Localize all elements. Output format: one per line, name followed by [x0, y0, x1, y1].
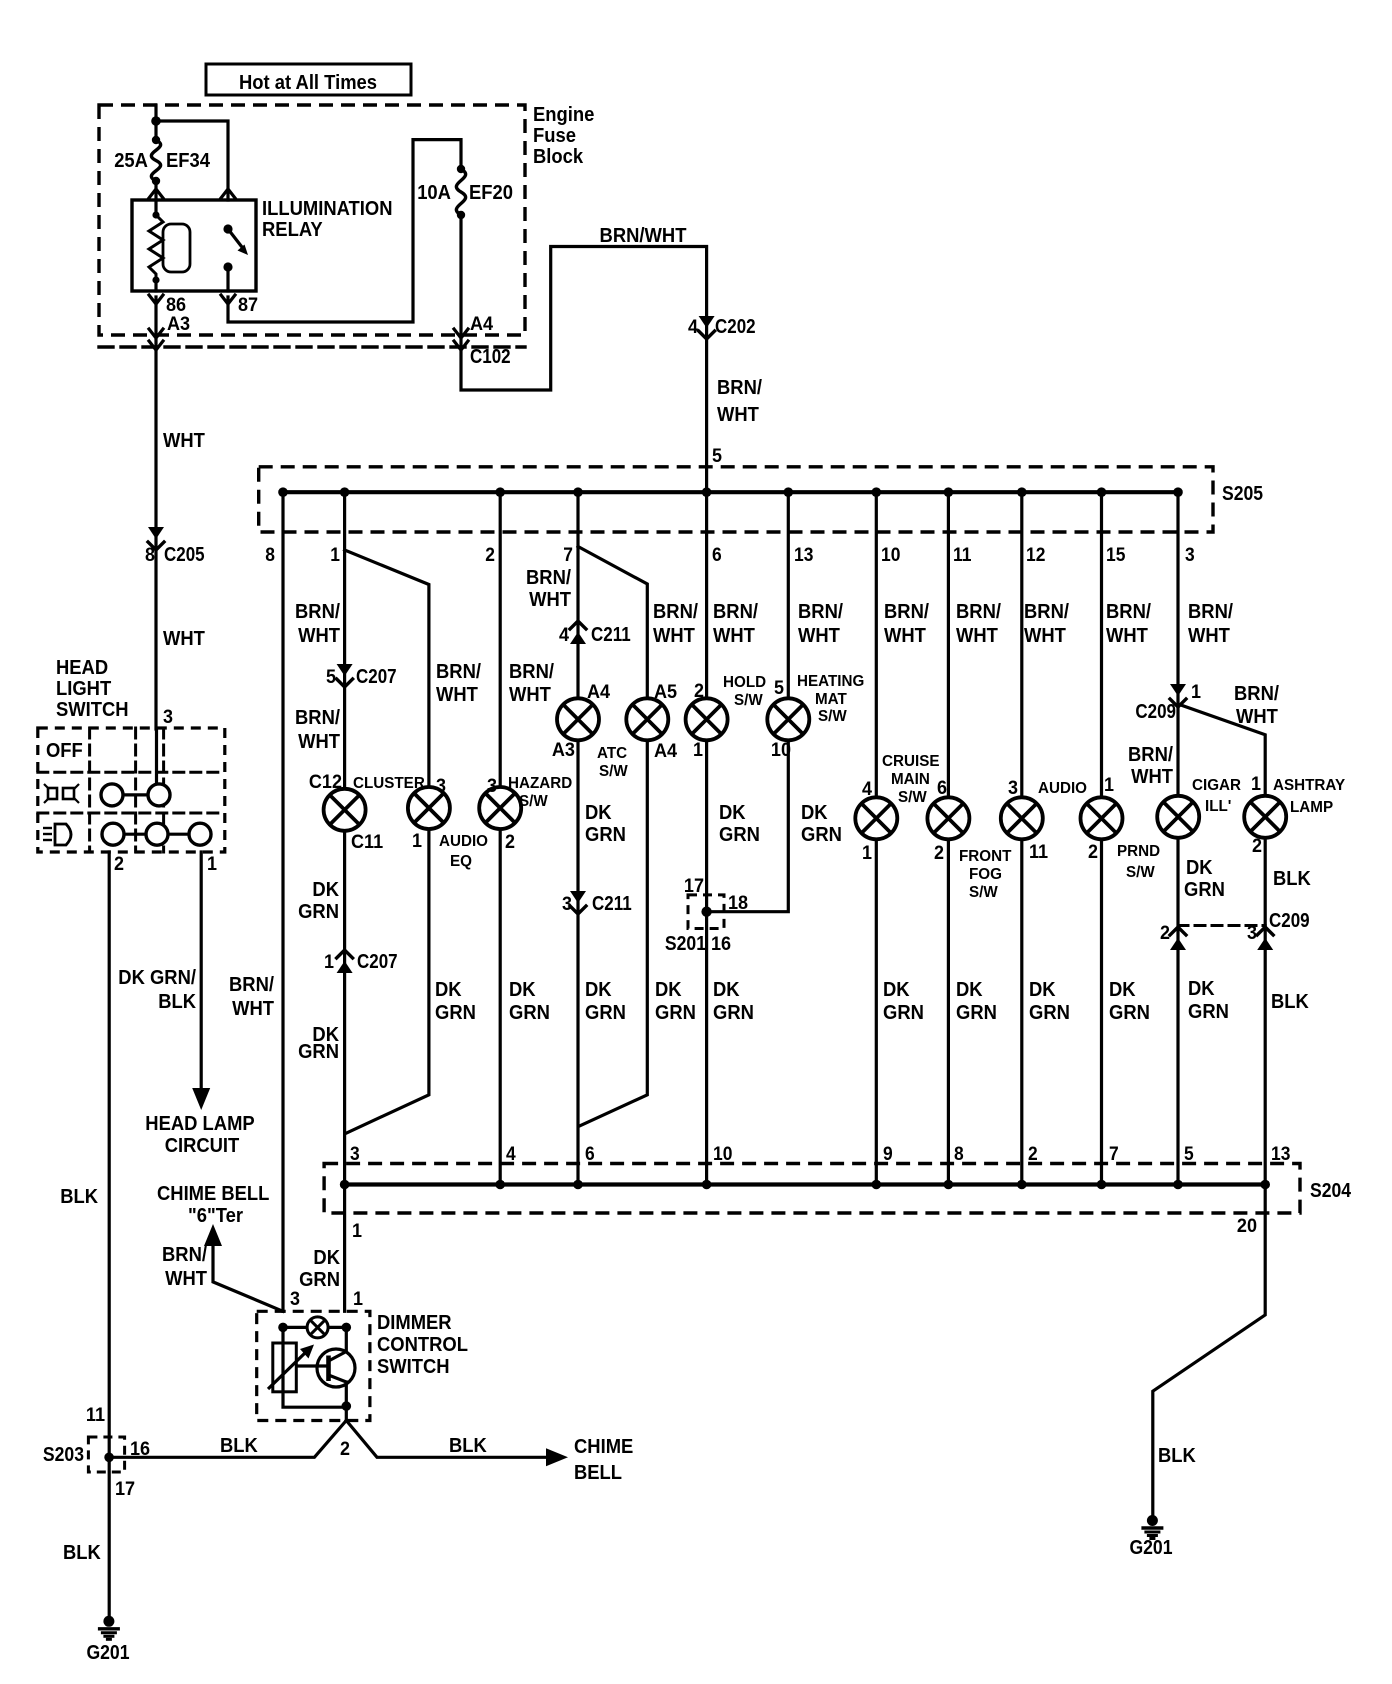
svg-text:G201: G201 — [1129, 1537, 1172, 1559]
svg-text:WHT: WHT — [1131, 766, 1173, 788]
wire dimmer pin2 BLK to chime bell — [346, 1421, 547, 1458]
svg-text:S205: S205 — [1222, 483, 1263, 505]
lamp PRND switch illumination — [1081, 797, 1123, 839]
wire branch C209 to ashtray lamp down to S204 pin13 — [1178, 704, 1265, 1185]
pin chevron 87 — [221, 295, 235, 304]
node S204 splice P — [1260, 1180, 1270, 1190]
pin arrow into relay left — [149, 189, 163, 198]
svg-text:CLUSTER: CLUSTER — [353, 775, 425, 792]
svg-text:BRN/: BRN/ — [295, 707, 340, 729]
node S204 splice F — [495, 1180, 505, 1190]
svg-text:A4: A4 — [587, 682, 611, 703]
lamp cigar lighter illumination — [1157, 796, 1199, 838]
svg-text:2: 2 — [934, 843, 944, 864]
dimmer control switch dashed box — [257, 1311, 370, 1420]
svg-text:G201: G201 — [86, 1642, 129, 1664]
node S204 splice O — [1173, 1180, 1183, 1190]
svg-text:WHT: WHT — [653, 625, 695, 647]
svg-text:1: 1 — [330, 545, 340, 566]
svg-text:WHT: WHT — [1188, 625, 1230, 647]
svg-text:1: 1 — [412, 831, 422, 852]
head light switch inner grid — [38, 728, 225, 852]
svg-text:BLK: BLK — [1273, 868, 1311, 890]
svg-text:CIGAR: CIGAR — [1192, 777, 1241, 794]
S201 splice dashed box — [688, 895, 724, 929]
fuse EF20 10A — [456, 165, 465, 219]
svg-text:BELL: BELL — [574, 1462, 622, 1484]
connector C205 arrow — [148, 527, 164, 550]
svg-text:GRN: GRN — [509, 1002, 550, 1024]
svg-text:BRN/: BRN/ — [436, 661, 481, 683]
connector C202 arrow — [699, 316, 715, 339]
svg-text:RELAY: RELAY — [262, 219, 323, 241]
svg-text:C211: C211 — [592, 893, 632, 915]
arrow to head lamp circuit — [192, 1088, 210, 1110]
lamp ATC switch illumination 2 — [626, 698, 668, 740]
svg-text:S/W: S/W — [599, 763, 629, 780]
node S204 splice D — [340, 1180, 350, 1190]
connector crossing A3 row2 — [149, 341, 163, 350]
svg-text:A4: A4 — [470, 314, 494, 335]
svg-text:1: 1 — [1191, 682, 1201, 703]
rheostat arrow — [268, 1345, 314, 1390]
svg-text:GRN: GRN — [298, 1041, 339, 1063]
svg-text:MAT: MAT — [815, 691, 847, 708]
svg-text:S204: S204 — [1310, 1180, 1352, 1202]
svg-text:3: 3 — [1008, 778, 1018, 799]
svg-text:C207: C207 — [357, 951, 398, 973]
svg-text:1: 1 — [207, 854, 217, 875]
svg-text:5: 5 — [326, 667, 336, 688]
wire S205 pin15 down through PRND switch lamp to S204 pin7 — [1100, 492, 1103, 1184]
pin chevron 86 — [149, 295, 163, 304]
svg-text:WHT: WHT — [232, 998, 274, 1020]
svg-text:1: 1 — [353, 1289, 363, 1310]
wire S205 pin2 down through hazard switch lamp to S204 pin4 — [499, 492, 502, 1184]
svg-text:DK: DK — [585, 979, 612, 1001]
svg-text:16: 16 — [130, 1439, 150, 1460]
node S205 splice G — [573, 487, 583, 497]
svg-text:Hot at All Times: Hot at All Times — [239, 72, 377, 94]
node S205 splice C — [278, 487, 288, 497]
svg-text:1: 1 — [1104, 775, 1114, 796]
svg-text:18: 18 — [728, 893, 748, 914]
wire S205 pin1 down to cluster lamp and S204 pin3 — [343, 492, 346, 1184]
node S205 splice O — [1173, 487, 1183, 497]
node S205 splice I — [702, 487, 712, 497]
svg-text:DK: DK — [313, 1247, 340, 1269]
connector C207 pin5 arrow — [337, 664, 353, 687]
svg-text:A4: A4 — [654, 741, 678, 762]
svg-text:DK: DK — [435, 979, 462, 1001]
svg-text:Engine: Engine — [533, 104, 594, 126]
relay coil — [149, 211, 190, 283]
lamp hold switch illumination — [686, 698, 728, 740]
svg-text:BLK: BLK — [158, 991, 196, 1013]
head lamp icon — [43, 824, 71, 845]
svg-text:2: 2 — [1028, 1144, 1038, 1165]
svg-text:S/W: S/W — [519, 793, 549, 810]
svg-text:WHT: WHT — [529, 589, 571, 611]
connector C207 pin1 arrow — [337, 950, 353, 973]
wire S204 pin3 down to dimmer pin 1 — [343, 1185, 346, 1312]
wire dimmer pin1 to transistor collector — [345, 1327, 348, 1351]
svg-text:16: 16 — [711, 934, 731, 955]
connector C211 pin3 arrow — [570, 891, 586, 914]
svg-text:12: 12 — [1026, 545, 1045, 566]
svg-text:WHT: WHT — [509, 684, 551, 706]
svg-text:WHT: WHT — [163, 628, 205, 650]
svg-text:WHT: WHT — [798, 625, 840, 647]
svg-text:WHT: WHT — [713, 625, 755, 647]
wire fuse EF34 to relay coil — [154, 181, 157, 215]
svg-text:25A: 25A — [114, 150, 148, 172]
svg-text:CRUISE: CRUISE — [882, 753, 940, 770]
svg-text:DK: DK — [1188, 978, 1215, 1000]
svg-text:WHT: WHT — [436, 684, 478, 706]
svg-text:DK: DK — [719, 802, 746, 824]
svg-text:7: 7 — [563, 545, 573, 566]
node S205 splice L — [944, 487, 954, 497]
svg-text:A5: A5 — [654, 682, 678, 703]
svg-text:WHT: WHT — [298, 625, 340, 647]
wire chime bell branch from dimmer pin3 — [213, 1246, 283, 1311]
S203 splice dashed box — [88, 1437, 124, 1472]
svg-text:S201: S201 — [665, 933, 706, 955]
svg-text:BLK: BLK — [1271, 991, 1309, 1013]
wire S205 pin6 down through hold switch lamp and S201 to S204 pin10 — [705, 492, 708, 1184]
wire S205 pin12 down through audio lamp to S204 pin2 — [1020, 492, 1023, 1184]
svg-text:BRN/: BRN/ — [526, 567, 571, 589]
svg-text:2: 2 — [1252, 836, 1262, 857]
wire coil to pin 86 — [154, 280, 157, 291]
svg-text:CIRCUIT: CIRCUIT — [165, 1135, 240, 1157]
svg-text:S/W: S/W — [969, 884, 999, 901]
svg-text:BLK: BLK — [1158, 1445, 1196, 1467]
lamp front fog switch illumination — [927, 797, 969, 839]
svg-text:2: 2 — [114, 854, 124, 875]
lamp hazard switch illumination — [479, 787, 521, 829]
svg-text:DK: DK — [956, 979, 983, 1001]
S205 dashed box — [259, 467, 1213, 532]
svg-text:OFF: OFF — [46, 740, 83, 762]
svg-text:"6"Ter: "6"Ter — [188, 1205, 243, 1227]
svg-text:BRN/: BRN/ — [956, 601, 1001, 623]
wire relay pin 87 to fuse EF20 — [228, 140, 461, 322]
lamp ashtray illumination — [1244, 796, 1286, 838]
svg-text:3: 3 — [1247, 923, 1257, 944]
svg-text:HAZARD: HAZARD — [508, 775, 572, 792]
svg-text:BLK: BLK — [60, 1186, 98, 1208]
wire S205 pin7 down through C211 and ATC lamp to S204 pin6 — [576, 492, 579, 1184]
svg-text:5: 5 — [774, 678, 784, 699]
svg-text:3: 3 — [290, 1289, 300, 1310]
svg-text:BRN/: BRN/ — [229, 974, 274, 996]
node junction feed split — [151, 116, 161, 126]
wire transistor emitter to dimmer pin2 — [345, 1382, 348, 1421]
svg-text:2: 2 — [505, 832, 515, 853]
node S205 splice M — [1017, 487, 1027, 497]
node S205 splice J — [784, 487, 794, 497]
svg-text:6: 6 — [937, 778, 947, 799]
svg-text:Block: Block — [533, 146, 584, 168]
svg-text:5: 5 — [1184, 1144, 1194, 1165]
connector C209 pin1 arrow — [1170, 684, 1186, 707]
svg-text:C102: C102 — [470, 346, 511, 368]
node S205 splice N — [1097, 487, 1107, 497]
svg-text:4: 4 — [862, 779, 872, 800]
svg-text:SWITCH: SWITCH — [377, 1356, 450, 1378]
wire dimmer pin2 BLK to S203 — [109, 1421, 346, 1458]
wire contact to pin 87 — [226, 267, 229, 291]
svg-text:C209: C209 — [1269, 910, 1310, 932]
svg-text:3: 3 — [350, 1144, 360, 1165]
svg-text:WHT: WHT — [1236, 706, 1278, 728]
svg-text:CHIME BELL: CHIME BELL — [157, 1183, 269, 1205]
svg-text:HEAD LAMP: HEAD LAMP — [145, 1113, 254, 1135]
svg-text:HOLD: HOLD — [723, 674, 766, 691]
svg-text:GRN: GRN — [801, 824, 842, 846]
svg-text:17: 17 — [115, 1479, 135, 1500]
wire S205 pin3 down through C209 and cigar lighter illumination to S204 pin5 — [1176, 492, 1179, 1184]
svg-text:4: 4 — [559, 625, 569, 646]
node S205 splice K — [872, 487, 882, 497]
connector C209 pin3 arrow — [1257, 927, 1273, 950]
svg-text:6: 6 — [712, 545, 722, 566]
svg-text:3: 3 — [487, 776, 497, 797]
svg-text:S/W: S/W — [898, 789, 928, 806]
S205 bus bar — [283, 490, 1178, 494]
switch position contacts row parking — [101, 784, 170, 806]
head light switch dashed box — [38, 728, 225, 852]
svg-text:AUDIO: AUDIO — [1038, 780, 1087, 797]
svg-text:BRN/: BRN/ — [509, 661, 554, 683]
svg-text:LAMP: LAMP — [1290, 799, 1333, 816]
wire fuse EF20 down through A4/C102 to BRN/WHT feed — [461, 215, 707, 492]
svg-text:10: 10 — [881, 545, 900, 566]
ground G201 right — [1141, 1515, 1163, 1539]
svg-text:C205: C205 — [164, 544, 205, 566]
svg-text:MAIN: MAIN — [891, 771, 930, 788]
svg-text:EQ: EQ — [450, 853, 472, 870]
svg-text:HEATING: HEATING — [797, 673, 864, 690]
svg-text:4: 4 — [506, 1144, 516, 1165]
connector C209 pin2 arrow — [1170, 927, 1186, 950]
svg-text:WHT: WHT — [956, 625, 998, 647]
svg-text:8: 8 — [265, 545, 275, 566]
svg-text:CHIME: CHIME — [574, 1436, 633, 1458]
svg-text:CONTROL: CONTROL — [377, 1334, 468, 1356]
svg-text:11: 11 — [1029, 842, 1049, 863]
relay switch contact — [223, 224, 248, 271]
wire S204 pin20 BLK down to ground G201 right — [1153, 1185, 1265, 1516]
svg-text:9: 9 — [883, 1144, 893, 1165]
svg-text:GRN: GRN — [298, 901, 339, 923]
pin arrow into relay right — [221, 189, 235, 198]
svg-text:1: 1 — [862, 843, 872, 864]
svg-text:S/W: S/W — [734, 692, 764, 709]
svg-text:BLK: BLK — [449, 1435, 487, 1457]
svg-text:GRN: GRN — [1029, 1002, 1070, 1024]
illumination relay box — [132, 200, 256, 291]
wire branch to relay switch contact — [156, 121, 228, 200]
svg-text:GRN: GRN — [1184, 879, 1225, 901]
lamp cruise main switch illumination — [855, 797, 897, 839]
lamp dimmer internal — [307, 1317, 328, 1338]
svg-text:S/W: S/W — [1126, 864, 1156, 881]
svg-text:FRONT: FRONT — [959, 848, 1012, 865]
lamp cluster illumination — [324, 789, 366, 831]
wire relay pin 86 down through A3 / C205 to headlight switch — [154, 297, 157, 729]
svg-text:2: 2 — [340, 1439, 350, 1460]
svg-text:6: 6 — [585, 1144, 595, 1165]
svg-text:EF34: EF34 — [166, 150, 211, 172]
svg-text:86: 86 — [166, 295, 186, 316]
wire branch pin7 to ATC lamp 2, rejoining above S204 pin6 — [578, 547, 647, 1127]
svg-text:BRN/: BRN/ — [798, 601, 843, 623]
svg-text:LIGHT: LIGHT — [56, 678, 111, 700]
svg-text:WHT: WHT — [298, 731, 340, 753]
ground G201 left — [98, 1616, 120, 1640]
svg-text:11: 11 — [86, 1405, 106, 1426]
svg-text:BRN/: BRN/ — [717, 377, 762, 399]
svg-text:AUDIO: AUDIO — [439, 833, 488, 850]
svg-text:BRN/: BRN/ — [1106, 601, 1151, 623]
svg-text:FOG: FOG — [969, 866, 1002, 883]
svg-text:GRN: GRN — [713, 1002, 754, 1024]
svg-text:Fuse: Fuse — [533, 125, 576, 147]
svg-text:1: 1 — [324, 952, 334, 973]
wire headlight switch pin1 DK GRN/BLK to head lamp circuit — [200, 852, 203, 1089]
node dimmer pin2 internal — [342, 1401, 352, 1411]
svg-text:BLK: BLK — [220, 1435, 258, 1457]
svg-text:BLK: BLK — [63, 1542, 101, 1564]
svg-text:BRN/WHT: BRN/WHT — [600, 225, 687, 247]
parking lamp icon — [44, 784, 79, 803]
svg-text:2: 2 — [485, 545, 495, 566]
svg-text:SWITCH: SWITCH — [56, 699, 129, 721]
svg-text:A3: A3 — [167, 314, 190, 335]
lamp audio EQ illumination — [408, 787, 450, 829]
arrow to chime bell — [546, 1448, 568, 1466]
fuse EF34 25A — [151, 136, 160, 185]
svg-text:BRN/: BRN/ — [1024, 601, 1069, 623]
svg-text:ILLUMINATION: ILLUMINATION — [262, 198, 393, 220]
svg-text:DK: DK — [801, 802, 828, 824]
svg-text:GRN: GRN — [299, 1269, 340, 1291]
svg-text:PRND: PRND — [1117, 843, 1160, 860]
node S201 splice — [701, 907, 711, 917]
rheostat resistor in dimmer — [273, 1343, 297, 1392]
svg-text:DK: DK — [655, 979, 682, 1001]
svg-text:17: 17 — [684, 876, 704, 897]
wire S205 pin8 BRN/WHT down to dimmer switch pin 3 — [281, 492, 284, 1311]
node dimmer pin1 internal — [342, 1323, 352, 1333]
svg-text:WHT: WHT — [884, 625, 926, 647]
svg-text:GRN: GRN — [655, 1002, 696, 1024]
node dimmer pin3 internal — [278, 1323, 288, 1333]
node S205 splice F — [495, 487, 505, 497]
svg-text:GRN: GRN — [956, 1002, 997, 1024]
svg-text:10: 10 — [713, 1144, 732, 1165]
svg-text:WHT: WHT — [1024, 625, 1066, 647]
node S204 splice I — [702, 1180, 712, 1190]
wire branch pin1 to audio EQ lamp, rejoining above S204 pin3 — [345, 550, 429, 1134]
svg-text:C211: C211 — [591, 624, 631, 646]
wire dimmer left branch through rheostat — [283, 1327, 346, 1407]
svg-text:13: 13 — [794, 545, 813, 566]
connector crossing A4 row2 — [454, 341, 468, 350]
S204 dashed box — [324, 1164, 1300, 1214]
svg-text:DK: DK — [1186, 857, 1213, 879]
svg-text:GRN: GRN — [585, 1002, 626, 1024]
svg-text:C202: C202 — [715, 316, 756, 338]
svg-text:3: 3 — [163, 707, 173, 728]
svg-text:20: 20 — [1237, 1216, 1257, 1237]
svg-text:13: 13 — [1271, 1144, 1290, 1165]
wire pin3 into switch — [155, 729, 158, 784]
svg-text:DIMMER: DIMMER — [377, 1312, 452, 1334]
svg-text:GRN: GRN — [435, 1002, 476, 1024]
svg-text:C209: C209 — [1135, 701, 1176, 723]
connector crossing A3 row1 — [149, 329, 163, 338]
svg-text:DK: DK — [312, 879, 339, 901]
svg-text:S/W: S/W — [818, 708, 848, 725]
transistor Q1 in dimmer — [296, 1349, 355, 1387]
svg-text:11: 11 — [953, 545, 972, 566]
wire hot feed into fuse EF34 — [154, 105, 157, 140]
svg-text:87: 87 — [238, 295, 258, 316]
svg-text:WHT: WHT — [163, 430, 205, 452]
svg-text:C12: C12 — [309, 772, 342, 793]
switch position contacts row head — [102, 823, 211, 845]
svg-text:3: 3 — [436, 776, 446, 797]
lamp ATC switch illumination 1 — [557, 698, 599, 740]
wire S205 pin11 down through front fog switch lamp to S204 pin8 — [947, 492, 950, 1184]
svg-text:10A: 10A — [417, 182, 451, 204]
svg-text:BRN/: BRN/ — [884, 601, 929, 623]
svg-text:10: 10 — [771, 740, 791, 761]
title box: Hot at All Times — [206, 64, 411, 95]
svg-text:BRN/: BRN/ — [653, 601, 698, 623]
svg-text:BRN/: BRN/ — [713, 601, 758, 623]
connector C211 pin4 arrow — [570, 621, 586, 644]
arrow to chime bell 6 terminal — [204, 1224, 222, 1246]
svg-text:BRN/: BRN/ — [295, 601, 340, 623]
node S203 splice — [104, 1453, 114, 1463]
connector C209 dashed boundary — [1178, 924, 1265, 927]
svg-text:DK: DK — [1029, 979, 1056, 1001]
svg-text:2: 2 — [1160, 923, 1170, 944]
svg-text:BRN/: BRN/ — [162, 1244, 207, 1266]
svg-text:2: 2 — [694, 681, 704, 702]
svg-text:DK: DK — [1109, 979, 1136, 1001]
wire headlight switch pin2 BLK down to S203 — [108, 852, 111, 1616]
node S204 splice G — [573, 1180, 583, 1190]
node S204 splice N — [1097, 1180, 1107, 1190]
svg-text:8: 8 — [954, 1144, 964, 1165]
svg-text:C207: C207 — [356, 666, 397, 688]
svg-text:2: 2 — [1088, 842, 1098, 863]
svg-text:1: 1 — [352, 1221, 362, 1242]
svg-text:WHT: WHT — [165, 1268, 207, 1290]
svg-text:1: 1 — [693, 740, 703, 761]
svg-text:DK: DK — [713, 979, 740, 1001]
wire S205 pin13 down through heating mat lamp to S201 — [707, 492, 789, 912]
node S204 splice M — [1017, 1180, 1027, 1190]
svg-text:GRN: GRN — [585, 824, 626, 846]
lamp audio illumination — [1001, 797, 1043, 839]
